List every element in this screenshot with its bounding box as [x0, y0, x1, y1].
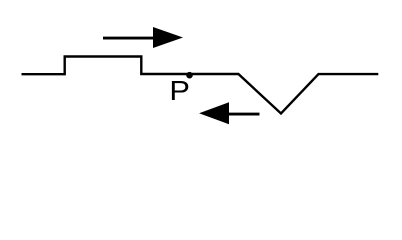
arrow: leftward velocity of V pulse [199, 102, 259, 124]
svg-text:P: P [169, 76, 190, 106]
node P: dot marker on string [186, 72, 193, 79]
arrow: rightward velocity of square pulse [103, 27, 183, 48]
wire: string with square pulse and V-shaped pulse [22, 57, 379, 114]
